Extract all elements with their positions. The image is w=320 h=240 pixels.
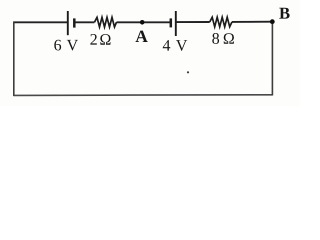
battery V1 (6 V): long plate (67, 11, 69, 35)
wire: battery V1 to resistor R1 (74, 21, 95, 23)
resistor R2 value label: 8 (212, 33, 219, 44)
wire: battery V2 to resistor R2 (176, 21, 210, 23)
resistor R1 value label: ohm (100, 34, 110, 45)
wire: resistor R2 to node B (232, 21, 272, 23)
battery V1 (6 V): short plate (73, 18, 76, 27)
wire: bottom side of loop (slight scan bow) (14, 94, 273, 97)
node A label (136, 31, 148, 42)
resistor R1 (2 ohm) zigzag (95, 17, 117, 27)
stray ink speck (187, 71, 189, 73)
resistor R2 (8 ohm) zigzag (210, 17, 232, 27)
wire: top-left corner to battery V1 (14, 21, 68, 23)
battery V1 value label: V (67, 40, 78, 51)
node A junction dot (140, 20, 145, 25)
node B label (279, 8, 289, 19)
wire: left side of loop (13, 21, 15, 96)
wire: resistor R1 to battery V2 (through node A) (117, 21, 171, 23)
battery V2 value label: V (176, 40, 187, 51)
node B junction dot (top-right corner) (270, 19, 275, 24)
top branch wires (14, 21, 273, 24)
resistor R2 value label: ohm (224, 33, 234, 44)
battery V2 (4 V): long plate (175, 11, 177, 36)
battery V1 value label: 6 (54, 40, 61, 51)
wire: right side of loop (271, 22, 273, 96)
battery V2 value label: 4 (163, 40, 170, 51)
battery V2 (4 V): short plate (170, 18, 173, 27)
resistor R1 value label: 2 (90, 34, 96, 45)
